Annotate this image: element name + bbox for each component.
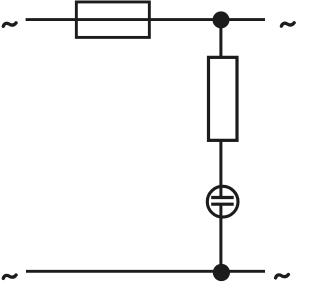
node tilde bottom-right [276,275,289,278]
junction dot top [213,11,230,28]
wire bottom horizontal N [26,270,265,273]
node N tilde bottom-left [3,275,16,278]
resistor R1 [209,57,238,140]
gas discharge tube top electrode [211,196,234,199]
node L2 tilde top-right [281,23,294,26]
wire top horizontal L1 [26,18,265,21]
gas discharge tube bottom electrode [211,203,234,206]
fuse F1 [76,2,149,37]
junction dot bottom [213,264,230,281]
gas discharge tube F2 circle [207,186,238,217]
wire vertical from top junction to resistor [219,20,222,58]
wire vertical from arrester to bottom junction [219,204,222,272]
wire vertical from resistor to arrester electrode [219,140,222,198]
node L1 tilde top-left [3,23,16,26]
